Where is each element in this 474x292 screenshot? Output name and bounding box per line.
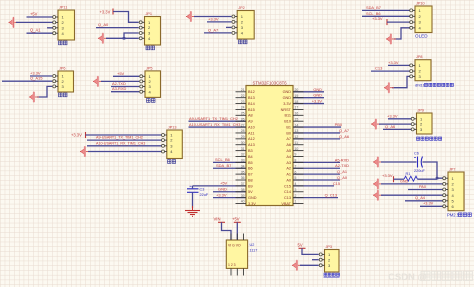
connector JP9 <box>411 109 432 135</box>
pin 36 B8 <box>236 179 247 181</box>
pin 7 A2 <box>293 167 304 169</box>
svg-text:Q_A4: Q_A4 <box>415 195 426 200</box>
pin 11 A6 <box>293 144 304 146</box>
svg-text:B5: B5 <box>248 161 253 165</box>
pin 29 A12 <box>236 138 247 140</box>
svg-text:B13: B13 <box>248 96 255 100</box>
svg-text:SDA_B7: SDA_B7 <box>216 163 232 168</box>
svg-text:11: 11 <box>295 141 299 145</box>
pin 9 A4 <box>293 155 304 157</box>
svg-text:A4: A4 <box>286 155 291 159</box>
wire GND (right of U1) <box>293 97 324 99</box>
svg-text:33: 33 <box>241 159 245 163</box>
wire +3.3V to JP9 pin1 <box>388 118 413 120</box>
svg-text:C6: C6 <box>414 152 419 156</box>
wire +3.3V to U1 <box>213 197 246 199</box>
svg-text:32: 32 <box>241 153 245 157</box>
wire +3.3V to R1 <box>394 178 405 180</box>
svg-text:JP11: JP11 <box>59 6 67 10</box>
svg-text:B15: B15 <box>248 108 255 112</box>
svg-text:5: 5 <box>295 176 297 180</box>
comment text below JP13 <box>168 160 176 164</box>
pin 5 A0 <box>293 179 304 181</box>
svg-text:U2: U2 <box>250 243 255 247</box>
wire +5V to U2 pin2 <box>236 222 238 240</box>
svg-text:GND: GND <box>283 96 292 100</box>
svg-text:3.3V: 3.3V <box>283 102 291 106</box>
svg-text:22: 22 <box>241 94 245 98</box>
svg-text:A9-USART1_TX_TIM1_CH2: A9-USART1_TX_TIM1_CH2 <box>189 117 238 121</box>
pin 19 GND <box>293 97 304 99</box>
svg-text:Q_A1: Q_A1 <box>30 28 41 33</box>
pin 28 A11 <box>236 132 247 134</box>
pin 25 A8 <box>236 114 247 116</box>
svg-text:A9: A9 <box>248 120 253 124</box>
svg-text:JP3: JP3 <box>326 245 333 249</box>
wire C6 to JP7 pin1 <box>423 162 444 178</box>
svg-text:1117: 1117 <box>250 249 258 253</box>
comment text below JP6 <box>59 93 68 97</box>
pin 39 GND <box>236 197 247 199</box>
wire +3.3V to JP8 pin1 <box>388 64 411 66</box>
svg-text:Q_A7: Q_A7 <box>208 27 219 32</box>
wire arrow to JP3 pin3 <box>300 264 319 266</box>
svg-text:PA0: PA0 <box>419 184 427 189</box>
svg-text:A3-RXD: A3-RXD <box>112 86 126 91</box>
svg-text:JP7: JP7 <box>449 168 456 172</box>
svg-text:C14: C14 <box>284 190 291 194</box>
svg-text:A8: A8 <box>248 114 253 118</box>
svg-text:A3: A3 <box>286 161 291 165</box>
svg-text:+3.3V: +3.3V <box>372 16 383 21</box>
svg-text:C13: C13 <box>284 196 291 200</box>
svg-text:B10: B10 <box>284 120 291 124</box>
wire C13 to JP8 pin2 <box>371 70 411 72</box>
connector JP10 <box>410 2 432 39</box>
wire Q_A0 to JP1 pin2 <box>96 27 139 29</box>
svg-text:B1: B1 <box>286 125 291 129</box>
comment text below JP11 <box>59 41 68 45</box>
svg-text:Q_C13: Q_C13 <box>325 193 337 198</box>
pin 13 B0 <box>293 132 304 134</box>
power port arrow (JP5 pin2) <box>93 80 103 82</box>
svg-text:A7: A7 <box>286 137 291 141</box>
power port arrow (JP10 pin4 net) <box>386 38 396 40</box>
svg-text:R1: R1 <box>406 172 411 176</box>
pin 10 A5 <box>293 150 304 152</box>
svg-text:C13: C13 <box>375 66 383 71</box>
wire stub JP2 pin3 <box>226 26 231 28</box>
svg-text:OLED: OLED <box>415 34 428 39</box>
wire Q_A6 to JP9 pin3 <box>383 128 413 130</box>
pin 14 B1 <box>293 126 304 128</box>
wire arrow to JP2 pin1 <box>194 16 231 18</box>
wire Q_A0 (right of U1) <box>293 179 340 181</box>
svg-text:PM2.5: PM2.5 <box>447 213 460 218</box>
pin 12 A7 <box>293 138 304 140</box>
svg-text:28: 28 <box>241 129 245 133</box>
wire C3 to ground <box>192 192 194 208</box>
svg-text:29: 29 <box>241 135 245 139</box>
svg-text:4: 4 <box>295 182 297 186</box>
pin 31 B3 <box>236 150 247 152</box>
svg-text:5V: 5V <box>298 243 303 248</box>
svg-text:+3.3V: +3.3V <box>382 173 393 178</box>
svg-text:+5V: +5V <box>30 11 38 16</box>
wire +5V to JP5 pin1 <box>113 75 139 77</box>
watermark CSDN <box>388 271 472 283</box>
svg-text:SCL_B6: SCL_B6 <box>366 11 381 16</box>
resistor R1 <box>404 172 417 181</box>
svg-text:GND: GND <box>283 90 292 94</box>
svg-text:35: 35 <box>241 170 245 174</box>
svg-text:+3.3V: +3.3V <box>71 132 82 137</box>
svg-text:25: 25 <box>241 112 245 116</box>
wire A2-TXD (right of U1) <box>293 167 340 169</box>
comment text below JP1 <box>146 46 155 50</box>
svg-text:JP6: JP6 <box>59 67 66 71</box>
svg-text:31: 31 <box>241 147 245 151</box>
svg-text:5V: 5V <box>248 190 253 194</box>
svg-text:GND: GND <box>248 196 257 200</box>
wire Q_A15 to JP6 pin2 <box>2 80 52 82</box>
wire +3.3V bend to JP1 pin1 <box>113 12 139 23</box>
wire arrow to JP7 pin2 <box>381 183 443 185</box>
wire C15 (right of U1) <box>293 185 334 187</box>
wire +3.3V to JP6 pin1 <box>30 75 52 77</box>
svg-text:7: 7 <box>295 164 297 168</box>
pin 38 5V <box>236 191 247 193</box>
power port arrow (JP2 pin1) <box>186 16 196 18</box>
svg-text:2: 2 <box>295 194 297 198</box>
wire A9 net to JP13 pin2 <box>87 139 162 141</box>
wire bend JP8 pin3 to arrow <box>392 76 411 87</box>
wire arrow to JP13 pin4 <box>88 151 162 153</box>
svg-text:220uF: 220uF <box>414 169 425 173</box>
svg-text:20: 20 <box>295 88 299 92</box>
svg-text:40: 40 <box>241 200 245 204</box>
svg-text:19: 19 <box>295 94 299 98</box>
power port arrow (JP1 pin4) <box>98 37 108 39</box>
svg-text:GND: GND <box>313 87 322 92</box>
svg-text:SCL_B6: SCL_B6 <box>215 157 231 162</box>
svg-text:27: 27 <box>241 123 245 127</box>
svg-text:A13: A13 <box>248 143 255 147</box>
junction dot C6/R1 <box>436 177 439 180</box>
svg-text:VIN: VIN <box>214 217 221 222</box>
capacitor C6 220uF <box>414 152 425 173</box>
wire +5V to U1 <box>193 185 247 187</box>
svg-text:9: 9 <box>295 153 297 157</box>
pin 18 3.3V <box>293 103 304 105</box>
connector JP1 <box>139 12 160 45</box>
svg-text:Q_A7: Q_A7 <box>339 128 349 133</box>
wire VIN to U2 pin1 <box>222 222 232 240</box>
wire bend JP6 pin3 to arrow <box>37 86 52 97</box>
svg-text:21: 21 <box>241 88 245 92</box>
svg-text:34: 34 <box>241 164 245 168</box>
power port arrow (JP11 pin2) <box>9 21 19 23</box>
svg-text:15: 15 <box>295 117 299 121</box>
wire C3 to +5V net <box>192 186 194 188</box>
pin 6 A1 <box>293 173 304 175</box>
svg-text:3: 3 <box>295 188 297 192</box>
wire Q_A4 to JP7 pin5 <box>405 200 443 202</box>
svg-text:A12: A12 <box>248 137 255 141</box>
wire A10-USART1 RX net (left) <box>189 126 247 128</box>
svg-text:GND: GND <box>400 179 409 183</box>
connector JP13 <box>162 126 183 159</box>
svg-text:B9: B9 <box>248 184 253 188</box>
svg-text:18: 18 <box>295 100 299 104</box>
svg-text:JP13: JP13 <box>168 126 177 130</box>
power port arrow (JP8 pin3 net) <box>384 87 394 89</box>
svg-text:C15: C15 <box>333 181 340 186</box>
svg-text:12: 12 <box>295 135 299 139</box>
svg-text:JP10: JP10 <box>416 2 425 6</box>
connector JP5 <box>140 66 161 97</box>
wire A3-RXD to JP5 pin4 <box>111 91 139 93</box>
svg-text:Q_A1: Q_A1 <box>337 169 347 174</box>
wire GND (right of U1) <box>293 91 324 93</box>
svg-text:A10-USART1_RX_TIM1_CH3: A10-USART1_RX_TIM1_CH3 <box>189 123 240 127</box>
svg-text:Q_A6: Q_A6 <box>339 134 349 139</box>
svg-text:+3.3V: +3.3V <box>100 10 111 15</box>
svg-text:B8: B8 <box>248 178 253 182</box>
power port arrow (JP9 pin2) <box>371 123 381 125</box>
wire A10 net to JP13 pin3 <box>87 145 162 147</box>
power port arrow (JP3 pin3) <box>292 264 302 266</box>
svg-text:36: 36 <box>241 176 245 180</box>
svg-text:NRST: NRST <box>281 108 292 112</box>
pin 23 B14 <box>236 103 247 105</box>
svg-text:B6: B6 <box>248 167 253 171</box>
svg-text:Q_A6: Q_A6 <box>385 124 396 129</box>
svg-text:23: 23 <box>241 100 245 104</box>
comment text dht11 sensor below JP8 <box>415 83 453 88</box>
connector JP8 <box>410 55 431 80</box>
wire stub JP11 pin3 <box>47 27 53 29</box>
svg-text:+3.3V: +3.3V <box>312 99 323 104</box>
pin 32 B4 <box>236 155 247 157</box>
svg-text:B14: B14 <box>248 102 255 106</box>
svg-text:JP1: JP1 <box>146 12 153 16</box>
svg-text:B12: B12 <box>248 90 255 94</box>
wire arrow to C6 <box>381 161 417 163</box>
pin 33 B5 <box>236 161 247 163</box>
connector JP7 <box>443 168 464 211</box>
svg-text:JP8: JP8 <box>416 55 423 59</box>
svg-text:GND: GND <box>313 93 322 98</box>
comment text PM2.5 sensor below JP7 <box>447 213 471 218</box>
pin 2 C13 <box>293 197 304 199</box>
pin 35 B7 <box>236 173 247 175</box>
wire Q_A7 (right of U1) <box>293 132 340 134</box>
svg-text:A5-RXD: A5-RXD <box>335 157 349 162</box>
pin 37 B9 <box>236 185 247 187</box>
pin 1 VBAT <box>293 203 304 205</box>
wire arrow to JP5 pin2 <box>101 80 139 82</box>
svg-text:22uF: 22uF <box>200 193 209 197</box>
svg-text:26: 26 <box>241 117 245 121</box>
power port arrow (JP13 pin4) <box>80 151 90 153</box>
pin 30 A13 <box>236 144 247 146</box>
svg-text:A2: A2 <box>286 167 291 171</box>
svg-text:13: 13 <box>295 129 299 133</box>
svg-text:Q_A15: Q_A15 <box>30 76 43 81</box>
svg-text:6: 6 <box>295 170 297 174</box>
wire PB0 (right of U1) <box>293 126 341 128</box>
svg-text:8: 8 <box>295 159 297 163</box>
ground symbol (power ground) <box>185 206 200 216</box>
wire +3.3V (right of U1) <box>293 103 324 105</box>
wire SDA_B7 to JP10 pin1 <box>362 9 411 11</box>
svg-text:A0: A0 <box>286 178 291 182</box>
pin 20 GND <box>293 91 304 93</box>
regulator U2 AMS1117 <box>226 234 257 276</box>
pin 21 B12 <box>236 91 247 93</box>
junction dot <box>123 37 126 40</box>
wire SCL_B6 <box>213 161 246 163</box>
pin 34 B6 <box>236 167 247 169</box>
svg-text:37: 37 <box>241 182 245 186</box>
power port arrow (C6 net) <box>373 161 383 163</box>
svg-text:14: 14 <box>295 123 299 127</box>
pin 22 B13 <box>236 97 247 99</box>
pin 4 C15 <box>293 185 304 187</box>
svg-text:SDA_B7: SDA_B7 <box>366 5 381 10</box>
svg-text:+3.3V: +3.3V <box>216 192 227 197</box>
svg-text:B0: B0 <box>286 131 291 135</box>
wire +3.3V to JP13 pin1 <box>86 134 163 136</box>
wire GND to U1 <box>213 191 246 193</box>
svg-text:B11: B11 <box>285 114 291 118</box>
pin 27 A10 <box>236 126 247 128</box>
comment text below JP5 <box>147 99 156 103</box>
svg-text:1 2 3: 1 2 3 <box>228 263 236 267</box>
svg-text:JP2: JP2 <box>238 6 245 10</box>
wire Q_A6 (right of U1) <box>293 138 340 140</box>
svg-text:30: 30 <box>241 141 245 145</box>
wire arrow to JP1 pin4 <box>106 37 139 39</box>
comment text power-interface below JP3 <box>324 273 340 277</box>
svg-text:16: 16 <box>295 112 299 116</box>
wire +3.3V to JP10 pin3 <box>387 21 411 23</box>
pin 15 B10 <box>293 120 304 122</box>
svg-text:STM32F103C8T6: STM32F103C8T6 <box>253 81 288 86</box>
svg-text:JP9: JP9 <box>418 109 425 113</box>
pin 3 C14 <box>293 191 304 193</box>
wire A2-TXD to JP5 pin3 <box>111 86 139 88</box>
svg-text:+3.3V: +3.3V <box>423 201 434 206</box>
wire A9-USART1 TX net (left) <box>189 120 247 122</box>
svg-text:JP5: JP5 <box>146 66 153 70</box>
svg-text:+3.3V: +3.3V <box>388 60 399 65</box>
svg-text:3.3V: 3.3V <box>248 202 256 206</box>
capacitor C3 22uF <box>187 186 209 197</box>
svg-text:A11: A11 <box>248 131 254 135</box>
svg-text:A10-USART1_RX_TIM1_CH3: A10-USART1_RX_TIM1_CH3 <box>96 141 145 145</box>
svg-text:1: 1 <box>295 200 297 204</box>
MCU module U1 STM32F103C8T6 <box>236 81 304 206</box>
comment text relay(fan) below JP9 <box>417 137 442 140</box>
svg-text:17: 17 <box>295 106 299 110</box>
svg-text:C3: C3 <box>200 188 205 192</box>
pin 24 B15 <box>236 108 247 110</box>
pin 8 A3 <box>293 161 304 163</box>
wire arrow to JP7 pin4 <box>381 194 443 196</box>
power port arrow (JP7 pin2) <box>373 183 383 185</box>
svg-text:+5V: +5V <box>232 217 240 222</box>
svg-text:A10: A10 <box>248 125 255 129</box>
connector JP2 <box>232 6 254 39</box>
svg-text:A1: A1 <box>286 173 291 177</box>
connector JP3 <box>319 245 339 272</box>
svg-text:B4: B4 <box>248 155 253 159</box>
svg-text:Q_A0: Q_A0 <box>98 22 109 27</box>
pin 16 B11 <box>293 114 304 116</box>
wire 5V to JP3 pin1 <box>302 248 319 254</box>
svg-text:+5V: +5V <box>117 71 125 76</box>
wire Q_A1 (right of U1) <box>293 173 340 175</box>
svg-text:+5V: +5V <box>220 181 228 186</box>
wire Q_C13 (right of U1) <box>293 197 338 199</box>
svg-text:GND: GND <box>218 187 227 192</box>
pin 26 A9 <box>236 120 247 122</box>
svg-text:+3.3V: +3.3V <box>208 16 219 21</box>
wire Q_A1 to JP11 pin4 <box>27 32 53 34</box>
svg-text:A5: A5 <box>286 149 291 153</box>
comment text below JP2 <box>239 40 248 44</box>
connector JP11 <box>53 6 75 41</box>
svg-text:VI G VO: VI G VO <box>228 244 241 248</box>
wire +3.3V to JP2 pin2 <box>207 21 231 23</box>
wire SDA_B7 <box>213 167 246 169</box>
svg-text:Q_A0: Q_A0 <box>337 175 348 180</box>
wire A5-RXD (right of U1) <box>293 161 340 163</box>
wire bend JP1 pin3 to pin4 net <box>124 33 139 38</box>
svg-text:C15: C15 <box>284 184 291 188</box>
svg-text:+3.3V: +3.3V <box>387 113 398 118</box>
power port arrow (JP6 pin3 net) <box>29 96 39 98</box>
wire PA0 to JP7 pin3 <box>408 189 443 191</box>
wire SCL_B6 to JP10 pin2 <box>362 15 411 17</box>
svg-text:10: 10 <box>295 147 299 151</box>
wire bend JP10 pin4 to arrow <box>394 28 411 39</box>
svg-text:39: 39 <box>241 194 245 198</box>
wire stub JP3 pin2 <box>312 259 319 261</box>
wire +3.3V to JP7 pin6 <box>420 205 443 207</box>
pin 17 NRST <box>293 108 304 110</box>
wire Q_A7 to JP2 pin4 <box>204 32 231 34</box>
connector JP6 <box>53 67 74 93</box>
pin 40 3.3V <box>236 203 247 205</box>
svg-text:VBAT: VBAT <box>281 202 291 206</box>
svg-text:B7: B7 <box>248 173 253 177</box>
svg-text:A2-TXD: A2-TXD <box>335 163 349 168</box>
svg-text:A9-USART1_TX_TIM1_CH2: A9-USART1_TX_TIM1_CH2 <box>96 136 143 140</box>
svg-text:A6: A6 <box>286 143 291 147</box>
wire +5V to JP11 pin1 <box>27 16 53 18</box>
svg-text:dht11: dht11 <box>415 83 425 88</box>
wire arrow to JP9 pin2 <box>379 123 413 125</box>
wire R1 to JP7 pin1 net <box>417 178 437 180</box>
svg-text:PB0: PB0 <box>335 122 343 127</box>
svg-text:38: 38 <box>241 188 245 192</box>
svg-text:B3: B3 <box>248 149 253 153</box>
wire arrow to JP11 pin2 <box>16 21 53 23</box>
svg-text:24: 24 <box>241 106 245 110</box>
